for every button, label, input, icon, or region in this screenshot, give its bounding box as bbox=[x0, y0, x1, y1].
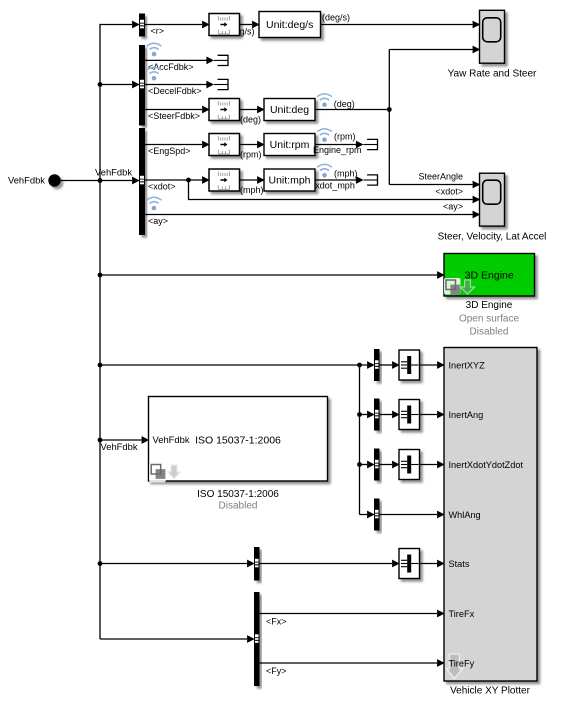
label (mph) pre bbox=[240, 185, 264, 195]
label <ay> (scope2) bbox=[443, 202, 463, 212]
wire xdot branch down bbox=[189, 180, 481, 203]
terminator T3 Engine_rpm bbox=[356, 139, 378, 149]
signal badge DecelFdbk bbox=[147, 67, 162, 80]
wire spine to Stats selector bbox=[100, 560, 255, 568]
svg-text:Unit:deg/s: Unit:deg/s bbox=[266, 19, 313, 31]
svg-text:ISO 15037-1:2006: ISO 15037-1:2006 bbox=[195, 435, 281, 447]
svg-text:VehFdbk: VehFdbk bbox=[8, 175, 45, 186]
block Vehicle XY Plotter bbox=[444, 348, 537, 682]
svg-text:Steer, Velocity, Lat Accel: Steer, Velocity, Lat Accel bbox=[438, 232, 547, 243]
unit conversion Unit:mph bbox=[264, 169, 315, 191]
svg-text:(rpm): (rpm) bbox=[334, 131, 356, 141]
wire InertAng selector to mux bbox=[380, 411, 400, 419]
block ISO 15037-1:2006 bbox=[149, 397, 328, 482]
bus selector BS-InertXYZ bbox=[374, 349, 380, 381]
wire Unit:deg/s to scope1 bbox=[321, 21, 481, 29]
label <SteerFdbk> bbox=[148, 111, 200, 121]
node feed-InertXYZ bbox=[357, 363, 362, 368]
mux InertXYZ bbox=[399, 350, 420, 380]
node junction deg bbox=[387, 107, 392, 112]
node xdot branch bbox=[186, 178, 191, 183]
bus selector BS-InertXdotYdotZdot bbox=[374, 449, 380, 481]
wire spine vertical bbox=[99, 25, 101, 640]
variant badge 3D Engine bbox=[444, 278, 461, 295]
label <xdot> bbox=[148, 182, 176, 192]
wire spine to BS2 bbox=[100, 81, 140, 89]
label (deg/s) bbox=[322, 13, 350, 23]
wire feed to InertXdotYdotZdot selector bbox=[360, 461, 375, 469]
wire mux to plotter Stats bbox=[420, 560, 445, 568]
label Yaw Rate and Steer bbox=[448, 69, 537, 80]
svg-text:Disabled: Disabled bbox=[219, 501, 258, 512]
wire mux to plotter InertXYZ bbox=[420, 361, 445, 369]
input port VehFdbk bbox=[8, 174, 61, 186]
svg-text:WhlAng: WhlAng bbox=[449, 510, 481, 520]
wire WhlAng selector to plotter bbox=[380, 511, 445, 519]
label <Fx> bbox=[266, 616, 287, 626]
wire AccFdbk to terminator bbox=[145, 59, 207, 61]
label <EngSpd> bbox=[148, 146, 191, 156]
wire Unit:mph to terminator bbox=[315, 179, 356, 181]
svg-text:Unit:deg: Unit:deg bbox=[270, 104, 309, 116]
rate transition RT2 bbox=[209, 99, 240, 121]
bus selector BS3 bbox=[139, 128, 145, 235]
mux Stats bbox=[399, 549, 420, 579]
label Disabled (ISO) bbox=[219, 501, 258, 512]
rate transition RT3 bbox=[209, 134, 240, 156]
label <DecelFdbk> bbox=[148, 86, 202, 96]
node spine-VehFdbk bbox=[98, 178, 103, 183]
svg-text:<DecelFdbk>: <DecelFdbk> bbox=[148, 86, 202, 96]
label (mph) post bbox=[334, 169, 358, 179]
label xdot_mph bbox=[315, 181, 355, 191]
unit conversion Unit:deg/s bbox=[259, 12, 321, 38]
svg-text:InertAng: InertAng bbox=[449, 410, 484, 420]
node feed-InertXdotYdotZdot bbox=[357, 462, 362, 467]
terminator T2 DecelFdbk bbox=[206, 79, 228, 89]
wire spine top to BS1 bbox=[100, 21, 140, 29]
node spine-BS2 bbox=[98, 82, 103, 87]
svg-text:<xdot>: <xdot> bbox=[435, 187, 463, 197]
unit conversion Unit:deg bbox=[264, 99, 315, 121]
svg-text:VehFdbk: VehFdbk bbox=[153, 434, 190, 445]
svg-text:Open surface: Open surface bbox=[459, 313, 519, 324]
wire RT3 to Unit:rpm bbox=[240, 141, 265, 149]
svg-text:<r>: <r> bbox=[151, 26, 165, 36]
node spine-Stats bbox=[98, 561, 103, 566]
svg-text:Yaw Rate and Steer: Yaw Rate and Steer bbox=[448, 69, 537, 80]
arrow badge 3D Engine bbox=[460, 280, 474, 294]
wire xdot to RT4 bbox=[145, 176, 210, 184]
wire RT4 to Unit:mph bbox=[240, 176, 265, 184]
svg-text:(rpm): (rpm) bbox=[240, 150, 262, 160]
rate transition RT4 bbox=[209, 169, 240, 191]
terminator T4 xdot_mph bbox=[356, 175, 378, 185]
wire BS1 r to RT1 bbox=[145, 21, 210, 29]
svg-text:<SteerFdbk>: <SteerFdbk> bbox=[148, 111, 200, 121]
svg-text:<xdot>: <xdot> bbox=[148, 182, 176, 192]
signal badge mph bbox=[317, 164, 332, 177]
label ISO 15037-1:2006 bbox=[197, 489, 279, 500]
svg-text:<ay>: <ay> bbox=[443, 202, 463, 212]
wire spine to InertXYZ selector bbox=[100, 361, 375, 369]
label SteerAngle bbox=[418, 172, 463, 182]
arrow badge ISO bbox=[168, 465, 181, 479]
svg-text:<ay>: <ay> bbox=[148, 216, 168, 226]
svg-text:InertXYZ: InertXYZ bbox=[449, 360, 486, 370]
mux InertAng bbox=[399, 400, 420, 430]
label Steer, Velocity, Lat Accel bbox=[438, 232, 547, 243]
signal badge deg bbox=[317, 94, 332, 107]
wire mux to plotter InertXdotYdotZdot bbox=[420, 461, 445, 469]
label (deg) post bbox=[334, 99, 355, 109]
wire TireFy to plotter bbox=[260, 659, 445, 667]
wire feed vertical bbox=[359, 365, 361, 515]
wire EngSpd to RT3 bbox=[145, 141, 210, 149]
wire junction vertical bbox=[388, 50, 390, 185]
wire feed to InertAng selector bbox=[360, 411, 375, 419]
wire InertXdotYdotZdot selector to mux bbox=[380, 461, 400, 469]
label Open surface bbox=[459, 313, 519, 324]
svg-text:xdot_mph: xdot_mph bbox=[315, 181, 355, 191]
mux InertXdotYdotZdot bbox=[399, 450, 420, 480]
wire Stats selector to mux bbox=[260, 560, 400, 568]
wire RT1 to Unit:deg/s bbox=[240, 21, 260, 29]
label <r> bbox=[151, 26, 165, 36]
svg-text:<Fx>: <Fx> bbox=[266, 616, 287, 626]
label <xdot> (scope2) bbox=[435, 187, 463, 197]
label 3D Engine bbox=[466, 300, 513, 311]
svg-text:Unit:mph: Unit:mph bbox=[268, 175, 310, 187]
wire spine to TireF selector bbox=[100, 635, 255, 643]
svg-text:Engine_rpm: Engine_rpm bbox=[313, 145, 362, 155]
bus selector BS-WhlAng bbox=[374, 499, 380, 531]
node feed-InertAng bbox=[357, 412, 362, 417]
svg-text:(deg/s): (deg/s) bbox=[322, 13, 350, 23]
node spine-ISO bbox=[98, 438, 103, 443]
label (rpm) post bbox=[334, 131, 356, 141]
svg-text:SteerAngle: SteerAngle bbox=[418, 172, 463, 182]
svg-text:3D Engine: 3D Engine bbox=[466, 300, 513, 311]
svg-text:(deg): (deg) bbox=[334, 99, 355, 109]
label (rpm) pre bbox=[240, 150, 262, 160]
label VehFdbk (wire) bbox=[95, 167, 132, 178]
svg-text:(mph): (mph) bbox=[240, 185, 264, 195]
node spine-InertXYZ bbox=[98, 363, 103, 368]
svg-text:InertXdotYdotZdot: InertXdotYdotZdot bbox=[449, 460, 524, 470]
wire ay to scope2 bbox=[145, 211, 480, 219]
rate transition RT1 bbox=[209, 14, 240, 36]
label (deg) pre bbox=[240, 115, 261, 125]
bus selector BS1 bbox=[139, 14, 145, 37]
wire spine to ISO bbox=[100, 436, 149, 444]
wire TireFx to plotter bbox=[260, 610, 445, 618]
signal badge ay bbox=[147, 197, 162, 210]
svg-text:(mph): (mph) bbox=[334, 169, 358, 179]
label Vehicle XY Plotter bbox=[450, 686, 531, 697]
svg-text:VehFdbk: VehFdbk bbox=[101, 441, 138, 452]
bus selector BS-Stats bbox=[254, 547, 260, 581]
bus selector BS-TireF bbox=[254, 592, 260, 686]
scope Yaw Rate and Steer bbox=[480, 10, 505, 63]
label g/s) bbox=[240, 26, 255, 36]
wire feed to WhlAng selector bbox=[360, 511, 375, 519]
wire Unit:rpm to terminator bbox=[315, 144, 356, 146]
label <AccFdbk> bbox=[148, 62, 194, 72]
wire spine to 3D Engine bbox=[100, 271, 445, 279]
scope Steer Velocity Lat Accel bbox=[480, 173, 505, 226]
svg-text:TireFx: TireFx bbox=[449, 609, 475, 619]
svg-text:Stats: Stats bbox=[449, 559, 470, 569]
signal badge AccFdbk bbox=[147, 43, 162, 56]
wire junction to scope2 SteerAngle bbox=[389, 181, 480, 189]
wire DecelFdbk to terminator bbox=[145, 84, 207, 86]
svg-text:Vehicle XY Plotter: Vehicle XY Plotter bbox=[450, 686, 531, 697]
svg-text:<EngSpd>: <EngSpd> bbox=[148, 146, 191, 156]
bus selector BS-InertAng bbox=[374, 399, 380, 431]
label Engine_rpm bbox=[313, 145, 362, 155]
label <Fy> bbox=[266, 666, 287, 676]
wire mux to plotter InertAng bbox=[420, 411, 445, 419]
svg-text:Unit:rpm: Unit:rpm bbox=[270, 139, 310, 151]
signal badge rpm bbox=[317, 129, 332, 142]
node spine-3DEngine bbox=[98, 273, 103, 278]
svg-text:(deg): (deg) bbox=[240, 115, 261, 125]
svg-text:Disabled: Disabled bbox=[470, 326, 509, 337]
svg-text:<Fy>: <Fy> bbox=[266, 666, 287, 676]
wire Unit:deg to junction bbox=[315, 109, 389, 111]
bus selector BS2 bbox=[139, 45, 145, 126]
label Disabled (3D) bbox=[470, 326, 509, 337]
label <ay> bbox=[148, 216, 168, 226]
wire SteerFdbk to RT2 bbox=[145, 106, 210, 114]
svg-text:TireFy: TireFy bbox=[449, 658, 475, 668]
wire VehFdbk to bus selector BS3 bbox=[61, 177, 140, 185]
label VehFdbk (ISO wire) bbox=[101, 441, 138, 452]
wire RT2 to Unit:deg bbox=[240, 106, 265, 114]
wire InertXYZ selector to mux bbox=[380, 361, 400, 369]
unit conversion Unit:rpm bbox=[264, 134, 315, 156]
variant badge ISO bbox=[149, 463, 166, 483]
terminator T1 AccFdbk bbox=[206, 55, 228, 65]
wire junction to scope1 bbox=[389, 46, 480, 54]
block 3D Engine bbox=[444, 254, 535, 297]
svg-text:ISO 15037-1:2006: ISO 15037-1:2006 bbox=[197, 489, 279, 500]
svg-text:3D Engine: 3D Engine bbox=[465, 270, 514, 282]
